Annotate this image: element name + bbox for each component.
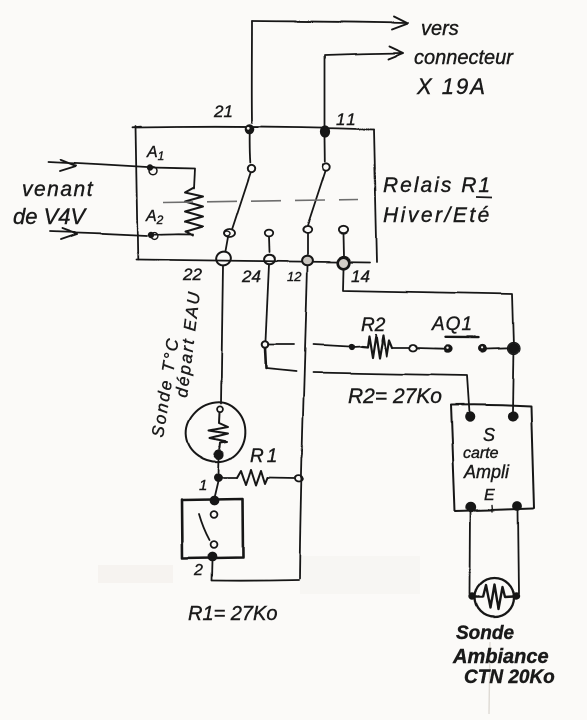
svg-text:21: 21 bbox=[213, 102, 233, 121]
svg-text:venant: venant bbox=[22, 178, 94, 201]
svg-text:14: 14 bbox=[351, 267, 370, 286]
svg-text:12: 12 bbox=[287, 269, 302, 284]
svg-text:X 19A: X 19A bbox=[416, 74, 487, 99]
svg-text:vers: vers bbox=[421, 18, 459, 40]
svg-text:Hiver/Eté: Hiver/Eté bbox=[383, 204, 492, 227]
svg-text:S: S bbox=[483, 425, 495, 445]
svg-text:AQ1: AQ1 bbox=[431, 314, 473, 335]
svg-text:R1: R1 bbox=[250, 446, 280, 467]
svg-text:Ampli: Ampli bbox=[463, 462, 510, 482]
svg-text:connecteur: connecteur bbox=[414, 47, 514, 69]
svg-text:24: 24 bbox=[241, 267, 261, 286]
svg-text:R2: R2 bbox=[361, 315, 386, 336]
svg-text:Relais R1: Relais R1 bbox=[383, 174, 492, 197]
svg-text:11: 11 bbox=[336, 110, 358, 129]
svg-text:2: 2 bbox=[193, 562, 203, 579]
svg-text:CTN 20Ko: CTN 20Ko bbox=[464, 667, 555, 688]
svg-text:1: 1 bbox=[199, 477, 207, 494]
svg-text:carte: carte bbox=[463, 445, 499, 462]
svg-text:22: 22 bbox=[182, 265, 202, 284]
svg-text:Ambiance: Ambiance bbox=[452, 646, 549, 668]
svg-text:Sonde: Sonde bbox=[456, 623, 514, 644]
svg-text:de V4V: de V4V bbox=[13, 204, 87, 229]
svg-text:R1= 27Ko: R1= 27Ko bbox=[188, 603, 278, 625]
svg-text:E: E bbox=[484, 487, 495, 504]
svg-text:R2= 27Ko: R2= 27Ko bbox=[348, 385, 442, 408]
